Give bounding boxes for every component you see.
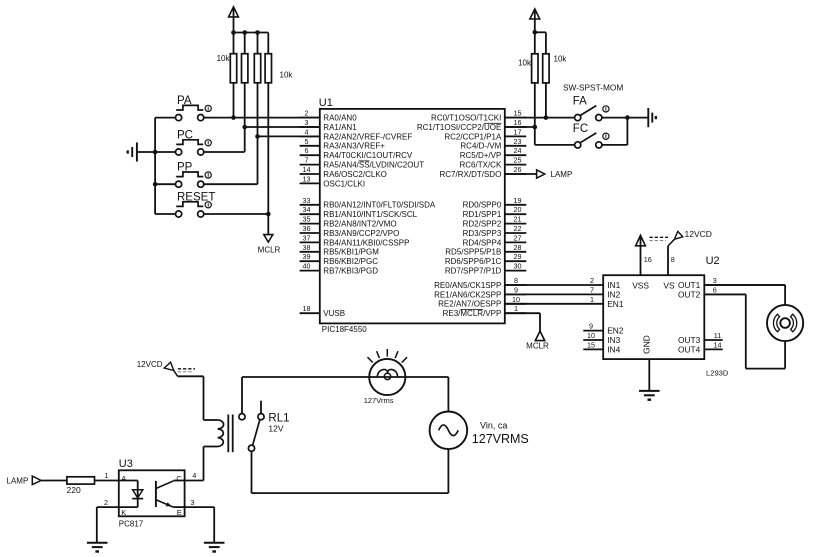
svg-text:12VCD: 12VCD (685, 229, 712, 239)
svg-text:MCLR: MCLR (526, 342, 549, 351)
svg-text:27: 27 (514, 233, 522, 242)
svg-text:17: 17 (514, 127, 522, 136)
svg-text:12V: 12V (268, 424, 283, 434)
svg-text:6: 6 (713, 285, 717, 294)
svg-text:SW-SPST-MOM: SW-SPST-MOM (563, 83, 623, 93)
svg-text:1: 1 (590, 295, 594, 304)
svg-text:VUSB: VUSB (323, 309, 345, 318)
svg-text:RB1/AN10/INT1/SCK/SCL: RB1/AN10/INT1/SCK/SCL (323, 210, 417, 219)
svg-text:3: 3 (305, 118, 309, 127)
svg-text:RA2/AN2/VREF-/CVREF: RA2/AN2/VREF-/CVREF (323, 132, 412, 141)
svg-text:OSC1/CLKI: OSC1/CLKI (323, 179, 365, 188)
svg-text:9: 9 (514, 285, 518, 294)
svg-text:14: 14 (303, 165, 311, 174)
svg-text:RA3/AN3/VREF+: RA3/AN3/VREF+ (323, 142, 385, 151)
svg-text:15: 15 (587, 340, 595, 349)
svg-text:C: C (176, 474, 182, 483)
svg-text:U1: U1 (319, 97, 333, 109)
svg-text:40: 40 (303, 262, 311, 271)
svg-text:7: 7 (590, 285, 594, 294)
svg-text:RD2/SPP2: RD2/SPP2 (463, 220, 502, 229)
svg-text:RC2/CCP1/P1A: RC2/CCP1/P1A (444, 132, 502, 141)
svg-text:10k: 10k (554, 55, 568, 64)
svg-text:18: 18 (303, 304, 311, 313)
svg-text:33: 33 (303, 196, 311, 205)
svg-text:7: 7 (305, 156, 309, 165)
svg-text:1: 1 (514, 304, 518, 313)
svg-text:15: 15 (514, 109, 522, 118)
svg-text:28: 28 (514, 243, 522, 252)
svg-text:RD1/SPP1: RD1/SPP1 (463, 210, 502, 219)
svg-text:LAMP: LAMP (7, 477, 29, 486)
svg-text:10k: 10k (217, 54, 231, 63)
svg-text:21: 21 (514, 215, 522, 224)
svg-text:RD0/SPP0: RD0/SPP0 (463, 201, 502, 210)
svg-text:RA6/OSC2/CLKO: RA6/OSC2/CLKO (323, 170, 387, 179)
svg-text:34: 34 (303, 205, 311, 214)
svg-text:RA4/T0CKI/C1OUT/RCV: RA4/T0CKI/C1OUT/RCV (323, 151, 413, 160)
svg-text:U3: U3 (119, 458, 133, 470)
svg-text:PC: PC (177, 129, 193, 141)
svg-text:RB7/KBI3/PGD: RB7/KBI3/PGD (323, 267, 378, 276)
svg-text:VSS: VSS (632, 280, 649, 290)
svg-text:10k: 10k (518, 59, 532, 68)
svg-text:RD7/SPP7/P1D: RD7/SPP7/P1D (445, 267, 502, 276)
svg-text:RB2/AN8/INT2/VMO: RB2/AN8/INT2/VMO (323, 220, 396, 229)
svg-text:RC0/T1OSO/T1CKI: RC0/T1OSO/T1CKI (431, 114, 501, 123)
svg-text:VS: VS (663, 280, 675, 290)
svg-text:RB6/KBI2/PGC: RB6/KBI2/PGC (323, 257, 378, 266)
svg-text:6: 6 (305, 146, 309, 155)
svg-text:RA5/AN4/SS/LVDIN/C2OUT: RA5/AN4/SS/LVDIN/C2OUT (323, 161, 424, 170)
svg-text:38: 38 (303, 243, 311, 252)
svg-text:22: 22 (514, 224, 522, 233)
svg-text:OUT4: OUT4 (678, 344, 701, 354)
svg-text:OUT2: OUT2 (678, 289, 701, 299)
svg-text:16: 16 (644, 255, 652, 264)
svg-text:RA0/AN0: RA0/AN0 (323, 114, 357, 123)
svg-text:RD4/SPP4: RD4/SPP4 (463, 238, 502, 247)
svg-text:RE1/AN6/CK2SPP: RE1/AN6/CK2SPP (434, 290, 501, 299)
svg-text:220: 220 (67, 485, 81, 495)
svg-text:LAMP: LAMP (551, 170, 573, 179)
svg-text:RE2/AN7/OESPP: RE2/AN7/OESPP (438, 300, 501, 309)
svg-text:MCLR: MCLR (258, 245, 281, 254)
svg-text:PC817: PC817 (119, 520, 144, 529)
svg-text:K: K (121, 508, 126, 517)
svg-text:36: 36 (303, 224, 311, 233)
svg-text:20: 20 (514, 205, 522, 214)
svg-text:9: 9 (589, 322, 593, 331)
svg-text:A: A (121, 474, 126, 483)
svg-text:39: 39 (303, 252, 311, 261)
svg-text:RC1/T1OSI/CCP2/UOE: RC1/T1OSI/CCP2/UOE (417, 123, 501, 132)
svg-text:E: E (177, 508, 182, 517)
svg-text:L293D: L293D (706, 369, 729, 378)
svg-text:PA: PA (177, 95, 192, 107)
svg-text:19: 19 (514, 196, 522, 205)
svg-text:RESET: RESET (177, 191, 215, 203)
svg-text:5: 5 (305, 137, 309, 146)
svg-text:IN4: IN4 (607, 344, 620, 354)
svg-text:RC7/RX/DT/SDO: RC7/RX/DT/SDO (440, 170, 502, 179)
svg-text:10k: 10k (280, 71, 294, 80)
svg-text:10: 10 (587, 331, 595, 340)
svg-text:13: 13 (303, 174, 311, 183)
svg-text:35: 35 (303, 215, 311, 224)
svg-text:RD5/SPP5/P1B: RD5/SPP5/P1B (445, 248, 501, 257)
svg-text:10: 10 (512, 295, 520, 304)
svg-text:Vin, ca: Vin, ca (480, 421, 507, 431)
svg-text:2: 2 (590, 276, 594, 285)
svg-text:25: 25 (514, 156, 522, 165)
svg-text:RC4/D-/VM: RC4/D-/VM (460, 142, 501, 151)
svg-text:PP: PP (177, 162, 193, 174)
svg-text:RB5/KBI1/PGM: RB5/KBI1/PGM (323, 248, 379, 257)
svg-text:RB0/AN12/INT0/FLT0/SDI/SDA: RB0/AN12/INT0/FLT0/SDI/SDA (323, 201, 436, 210)
svg-text:EN1: EN1 (607, 299, 624, 309)
svg-text:2: 2 (104, 498, 108, 507)
svg-text:8: 8 (671, 255, 675, 264)
svg-text:U2: U2 (706, 255, 720, 267)
svg-text:RB4/AN11/KBI0/CSSPP: RB4/AN11/KBI0/CSSPP (323, 238, 409, 247)
svg-text:RA1/AN1: RA1/AN1 (323, 123, 357, 132)
svg-text:3: 3 (713, 276, 717, 285)
svg-text:26: 26 (514, 165, 522, 174)
svg-text:4: 4 (305, 127, 309, 136)
svg-text:GND: GND (641, 335, 651, 354)
svg-text:RD3/SPP3: RD3/SPP3 (463, 229, 502, 238)
svg-text:8: 8 (514, 276, 518, 285)
svg-text:RE0/AN5/CK1SPP: RE0/AN5/CK1SPP (434, 281, 501, 290)
svg-text:RE3/MCLR/VPP: RE3/MCLR/VPP (443, 309, 502, 318)
svg-text:11: 11 (714, 331, 721, 340)
svg-text:29: 29 (514, 252, 522, 261)
svg-text:4: 4 (192, 471, 196, 480)
svg-text:RC6/TX/CK: RC6/TX/CK (460, 161, 502, 170)
svg-text:14: 14 (714, 340, 722, 349)
svg-text:FA: FA (573, 95, 587, 107)
svg-text:RD6/SPP6/P1C: RD6/SPP6/P1C (445, 257, 502, 266)
svg-text:12VCD: 12VCD (137, 360, 163, 369)
svg-text:FC: FC (573, 123, 588, 135)
svg-text:37: 37 (303, 233, 311, 242)
svg-text:RC5/D+/VP: RC5/D+/VP (460, 151, 502, 160)
svg-text:PIC18F4550: PIC18F4550 (322, 325, 367, 334)
svg-text:30: 30 (514, 262, 522, 271)
svg-text:3: 3 (191, 498, 195, 507)
svg-text:2: 2 (305, 109, 309, 118)
svg-text:23: 23 (514, 137, 522, 146)
svg-text:1: 1 (105, 471, 109, 480)
svg-text:16: 16 (514, 118, 522, 127)
svg-text:127Vrms: 127Vrms (364, 396, 394, 405)
svg-text:127VRMS: 127VRMS (472, 432, 529, 446)
svg-text:24: 24 (514, 146, 522, 155)
svg-text:RB3/AN9/CCP2/VPO: RB3/AN9/CCP2/VPO (323, 229, 399, 238)
